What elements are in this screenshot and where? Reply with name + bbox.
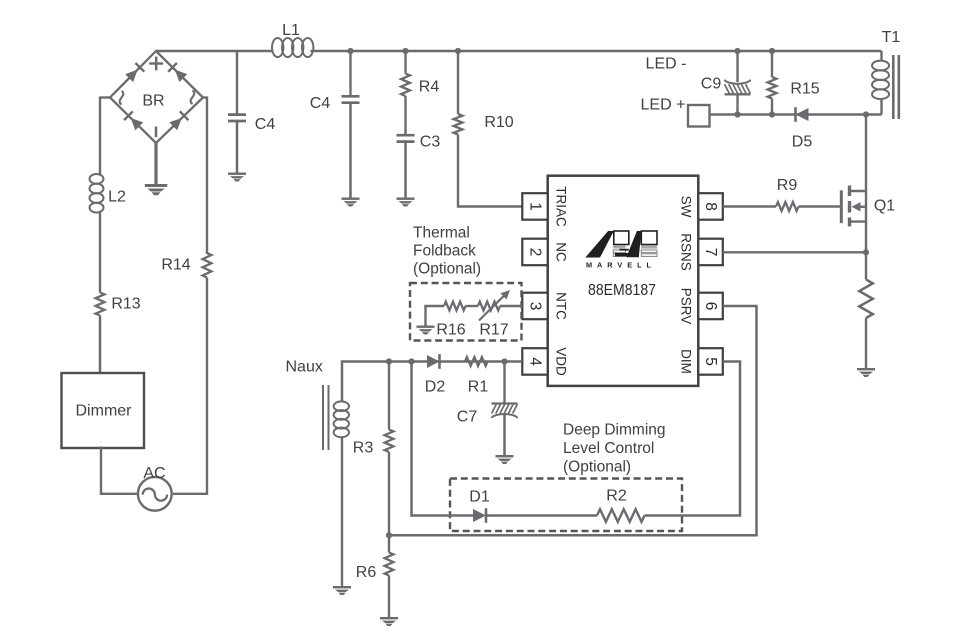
- resistor R16: [436, 302, 465, 339]
- svg-text:AC: AC: [143, 465, 165, 482]
- wire C4a to ground: [236, 121, 239, 172]
- pin label SW: [679, 196, 694, 218]
- wire D1 to R2: [487, 514, 598, 517]
- resistor R15: [768, 77, 820, 99]
- wire pin 6 to bottom rail: [390, 306, 757, 535]
- svg-text:LED +: LED +: [641, 97, 686, 114]
- wire C7 to ground: [503, 414, 506, 455]
- ground in thermal box: [417, 326, 435, 335]
- pin 2 box: [522, 239, 547, 266]
- svg-text:C9: C9: [701, 76, 722, 93]
- wire to sense resistor: [865, 252, 867, 279]
- pin 6 box: [698, 293, 723, 320]
- svg-text:DIM: DIM: [679, 349, 694, 374]
- svg-text:3: 3: [527, 302, 544, 311]
- node C4b: [347, 48, 353, 54]
- pin 7 box: [698, 239, 723, 266]
- transformer T1 core: [893, 55, 899, 119]
- wire pin 7 to sense node: [723, 251, 866, 253]
- resistor R13: [96, 293, 141, 316]
- wire R2 to pin 5: [645, 362, 741, 516]
- ground at Naux: [333, 586, 351, 595]
- wire R3 branch: [388, 362, 390, 430]
- resistor R9: [776, 177, 799, 211]
- wire C4b branch: [349, 51, 351, 96]
- wire node to R6: [388, 535, 390, 552]
- svg-text:BR: BR: [142, 93, 164, 110]
- Marvell logo: [585, 231, 657, 258]
- node R4: [402, 48, 408, 54]
- diode D5: [792, 107, 813, 150]
- svg-text:Deep Dimming: Deep Dimming: [563, 421, 666, 438]
- label LED-: [646, 56, 687, 73]
- pin label VDD: [554, 347, 569, 376]
- wire top rail left (BR+ to L1): [156, 50, 274, 52]
- wire R9 to Q1 gate: [799, 205, 842, 207]
- svg-text:8: 8: [702, 202, 719, 211]
- svg-text:4: 4: [527, 357, 544, 366]
- wire to R10: [457, 51, 459, 114]
- transformer T1 primary: [872, 29, 900, 115]
- node C7 top: [501, 358, 507, 364]
- wire to R4: [404, 51, 406, 74]
- pin label NC: [554, 242, 569, 262]
- node sense: [863, 249, 869, 255]
- wire to R15: [771, 51, 773, 77]
- node C9 top: [734, 48, 740, 54]
- ground at R6: [380, 617, 398, 626]
- pin label DIM: [679, 349, 694, 374]
- node R10: [455, 48, 461, 54]
- svg-text:L1: L1: [282, 22, 300, 39]
- svg-text:88EM8187: 88EM8187: [588, 282, 656, 299]
- svg-text:TRIAC: TRIAC: [554, 186, 569, 227]
- svg-text:L2: L2: [108, 189, 126, 206]
- label 88EM8187: [588, 282, 656, 299]
- svg-text:D2: D2: [425, 379, 446, 396]
- svg-text:R16: R16: [436, 322, 465, 339]
- label Thermal Foldback (Optional): [413, 224, 481, 277]
- node D1 branch top: [408, 358, 414, 364]
- node C9 bottom: [734, 111, 740, 117]
- wire R17 to pin 3: [500, 305, 522, 307]
- svg-text:(Optional): (Optional): [563, 458, 631, 475]
- svg-text:C4: C4: [310, 95, 331, 112]
- wire C3 to ground: [404, 142, 407, 198]
- diode D1: [469, 489, 490, 523]
- resistor R2: [597, 488, 645, 522]
- ground at C4b: [342, 198, 360, 207]
- svg-text:Naux: Naux: [286, 359, 323, 376]
- svg-text:LED -: LED -: [646, 56, 687, 73]
- svg-text:2: 2: [527, 248, 544, 257]
- svg-text:Thermal: Thermal: [413, 224, 470, 241]
- transistor Q1: [841, 186, 895, 253]
- Naux winding core: [323, 385, 329, 450]
- wire R4 to C3: [404, 96, 406, 135]
- pin label RSNS: [679, 233, 694, 271]
- svg-text:C3: C3: [420, 134, 441, 151]
- svg-text:Level Control: Level Control: [563, 440, 654, 457]
- wire R13 to Dimmer: [99, 316, 102, 373]
- svg-text:(Optional): (Optional): [413, 260, 481, 277]
- ground at C3: [397, 198, 415, 207]
- node Q1 drain junction: [863, 111, 869, 117]
- svg-text:RSNS: RSNS: [679, 233, 694, 271]
- svg-text:C7: C7: [457, 409, 478, 426]
- svg-text:Q1: Q1: [874, 198, 895, 215]
- svg-text:R10: R10: [484, 114, 513, 131]
- wire pin 8 to R9: [723, 205, 776, 207]
- resistor R1: [465, 357, 488, 395]
- wire R14 to BR right vertex: [203, 97, 207, 255]
- resistor R14: [161, 253, 211, 278]
- wire C9 bottom: [736, 95, 738, 115]
- wire C4b to ground: [349, 103, 352, 198]
- inductor L2: [90, 174, 127, 213]
- svg-text:R3: R3: [353, 440, 374, 457]
- svg-text:R13: R13: [111, 296, 140, 313]
- node R15 top: [769, 48, 775, 54]
- pin 4 box: [522, 348, 547, 375]
- svg-text:MARVELL: MARVELL: [586, 260, 656, 269]
- wire top rail (L1 to T1): [311, 50, 882, 52]
- svg-text:R15: R15: [790, 81, 819, 98]
- svg-text:R2: R2: [606, 488, 627, 505]
- wire R16 to R17: [466, 305, 479, 307]
- sense resistor: [859, 280, 873, 319]
- svg-text:SW: SW: [679, 196, 694, 218]
- svg-text:R17: R17: [479, 322, 508, 339]
- LED+ terminal: [688, 105, 710, 127]
- deep dimming dashed box: [450, 479, 682, 532]
- wire C7 branch: [503, 362, 505, 404]
- svg-text:NTC: NTC: [554, 292, 569, 320]
- wire C4a branch: [236, 51, 238, 114]
- wire D1 branch vertical: [412, 362, 474, 516]
- wire to Q1 drain: [865, 115, 867, 192]
- svg-text:Foldback: Foldback: [413, 242, 476, 259]
- pin 5 box: [698, 348, 723, 375]
- Naux winding coil: [334, 401, 349, 437]
- capacitor C4 (first): [228, 115, 275, 133]
- svg-text:5: 5: [702, 357, 719, 366]
- resistor R17 (adjustable): [478, 290, 510, 339]
- svg-text:NC: NC: [554, 242, 569, 262]
- diode D2: [425, 354, 446, 395]
- capacitor C3: [397, 134, 441, 151]
- svg-text:R6: R6: [356, 564, 377, 581]
- wire Dimmer to AC source: [101, 446, 138, 493]
- inductor L1: [272, 22, 313, 57]
- label LED+: [641, 97, 686, 114]
- svg-text:R4: R4: [419, 79, 440, 96]
- wire L2 to R13: [99, 213, 101, 293]
- wire Naux top to VDD rail: [342, 362, 522, 403]
- svg-text:R9: R9: [777, 177, 798, 194]
- bridge rectifier BR: [110, 51, 203, 143]
- IC U1 88EM8187 body: [548, 176, 699, 386]
- svg-text:R1: R1: [468, 379, 489, 396]
- resistor R6: [356, 553, 394, 582]
- wire LED+ rail with D5: [710, 113, 882, 115]
- svg-text:D5: D5: [792, 134, 813, 151]
- resistor R3: [353, 430, 394, 457]
- wire BR minus to ground: [154, 143, 157, 184]
- ground at BR: [145, 184, 168, 195]
- node R15 bottom: [769, 111, 775, 117]
- thermal foldback dashed box: [410, 283, 522, 341]
- svg-text:Dimmer: Dimmer: [76, 403, 133, 420]
- label Deep Dimming Level Control (Optional): [563, 421, 666, 475]
- wire R10 to pin 1: [458, 135, 522, 207]
- svg-text:R14: R14: [161, 257, 190, 274]
- svg-text:D1: D1: [469, 489, 490, 506]
- wire BR left vertex to L2: [100, 97, 110, 175]
- wire Naux coil to ground: [341, 437, 343, 587]
- pin label TRIAC: [554, 186, 569, 227]
- node R3 top: [386, 358, 392, 364]
- ground at sense resistor: [857, 368, 875, 377]
- svg-text:1: 1: [527, 202, 544, 211]
- wire R3 to node: [388, 452, 390, 535]
- ground at C4a: [228, 173, 246, 182]
- svg-text:VDD: VDD: [554, 347, 569, 376]
- pin 1 box: [522, 193, 547, 220]
- svg-text:C4: C4: [255, 116, 276, 133]
- wire thermal ground to R16: [426, 306, 445, 326]
- capacitor C9: [701, 76, 751, 95]
- wire R6 to ground: [388, 576, 390, 618]
- ground at C7: [496, 455, 514, 464]
- svg-text:7: 7: [702, 248, 719, 257]
- wire AC to R14 branch: [173, 278, 207, 495]
- pin label PSRV: [679, 288, 694, 325]
- wire sense resistor to ground: [865, 318, 867, 368]
- resistor R4: [401, 74, 439, 97]
- dimmer box: [62, 373, 145, 448]
- pin 3 box: [522, 293, 547, 320]
- wire R15 bottom: [771, 99, 773, 115]
- node R3/R6: [386, 532, 392, 538]
- resistor R10: [454, 114, 514, 135]
- svg-text:6: 6: [702, 302, 719, 311]
- wire C9 branch: [736, 51, 738, 82]
- AC source: [138, 465, 172, 511]
- logo text MARVELL: [586, 260, 656, 269]
- pin label NTC: [554, 292, 569, 320]
- capacitor C4 (second): [310, 95, 360, 112]
- label Naux: [286, 359, 323, 376]
- capacitor C7: [457, 404, 518, 426]
- svg-text:T1: T1: [882, 29, 901, 46]
- svg-text:PSRV: PSRV: [679, 288, 694, 325]
- pin 8 box: [698, 193, 723, 220]
